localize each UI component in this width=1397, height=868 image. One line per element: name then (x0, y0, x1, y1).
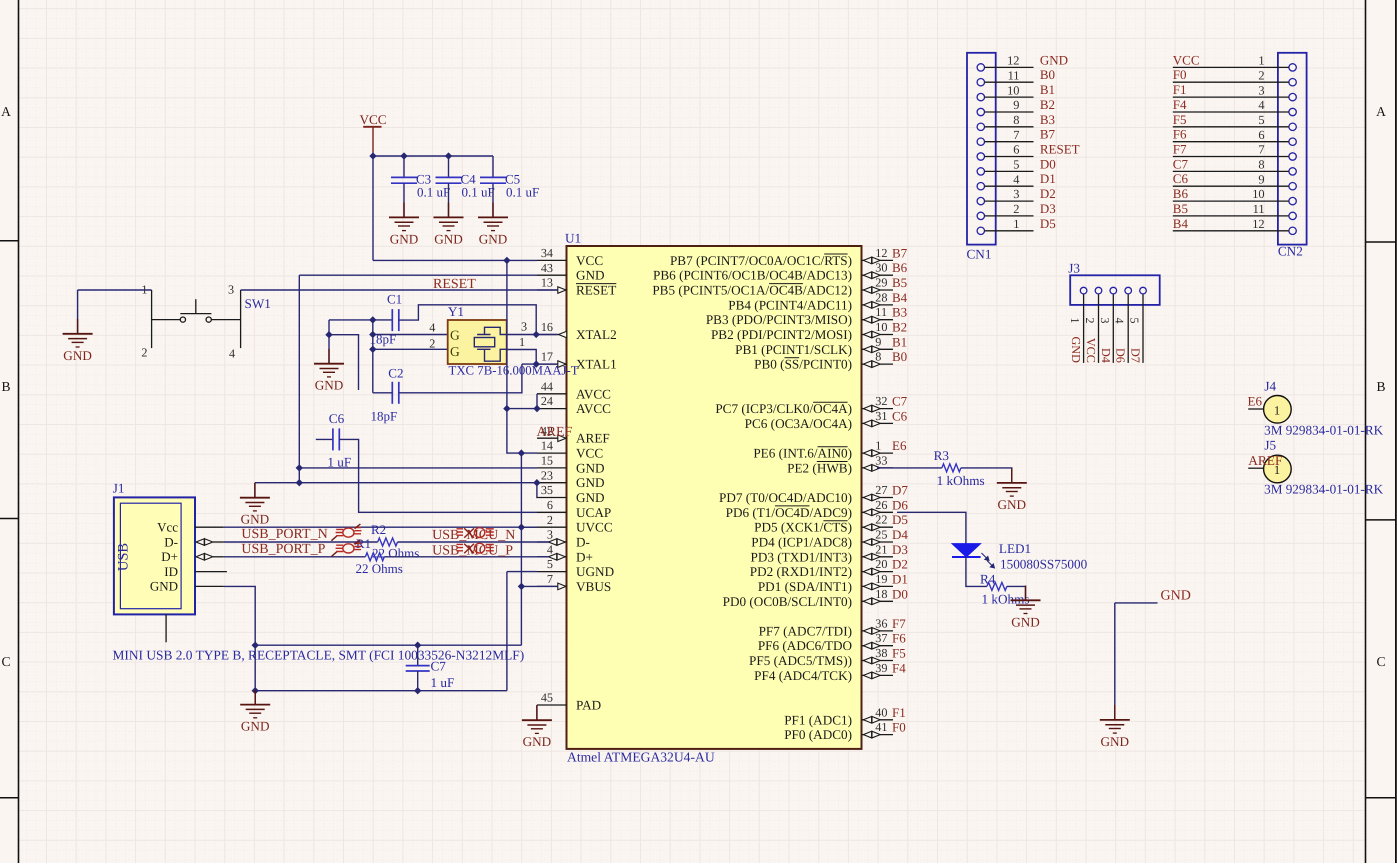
CN2 pin 3 F1 (1289, 93, 1296, 100)
ic U1 ATMEGA32U4 body (567, 246, 862, 749)
ground symbol right (1114, 705, 1116, 720)
svg-text:MINI USB 2.0 TYPE B, RECEPTACL: MINI USB 2.0 TYPE B, RECEPTACLE, SMT (FC… (113, 648, 525, 663)
svg-text:11: 11 (1253, 202, 1265, 216)
svg-text:1: 1 (1013, 217, 1019, 231)
svg-text:B5: B5 (892, 275, 907, 290)
svg-text:C6: C6 (892, 408, 908, 423)
svg-text:GND: GND (998, 497, 1027, 512)
svg-text:2: 2 (1013, 202, 1019, 216)
svg-text:2: 2 (1258, 69, 1264, 83)
U1 right pin 30 PB6 (PCINT6/OC1B/OC4B/ADC13) (862, 274, 894, 276)
svg-text:D4: D4 (892, 527, 908, 542)
CN2 pin 1 VCC (1289, 64, 1296, 71)
svg-text:12: 12 (875, 246, 887, 260)
U1 right pin 20 PD2 (RXD1/INT2) (862, 571, 894, 573)
svg-text:UCAP: UCAP (576, 505, 611, 520)
CN1 pin 11 B0 (977, 79, 984, 86)
CN1 pin 5 D0 (977, 168, 984, 175)
U1 right pin 39 PF4 (ADC4/TCK) (862, 674, 894, 676)
svg-text:SW1: SW1 (245, 296, 271, 311)
wire USB_PORT_N to R2 (224, 541, 378, 543)
ground symbol below J1 (254, 690, 256, 705)
svg-text:5: 5 (1258, 113, 1264, 127)
svg-text:3: 3 (228, 283, 234, 297)
svg-text:J5: J5 (1264, 438, 1276, 453)
svg-text:2: 2 (547, 513, 553, 527)
CN1 pin 10 B1 (977, 93, 984, 100)
wire Y1 pin2 (373, 348, 448, 350)
svg-text:1 uF: 1 uF (431, 675, 455, 690)
wire VCC top bus (373, 155, 493, 157)
svg-text:8: 8 (1258, 158, 1264, 172)
svg-text:A: A (1, 104, 11, 119)
svg-text:4: 4 (1113, 318, 1127, 324)
U1 left pin 3 D- (537, 541, 567, 543)
svg-text:2: 2 (1083, 318, 1097, 324)
wire R1 to U1 D+ (384, 556, 549, 558)
svg-text:24: 24 (541, 394, 553, 408)
wire gnd net right (1115, 603, 1158, 720)
svg-text:AVCC: AVCC (576, 401, 611, 416)
red error scribble on USB_MCU_P (457, 543, 494, 553)
svg-text:CN2: CN2 (1278, 244, 1303, 259)
CN1 pin 8 B3 (977, 123, 984, 130)
U1 right pin 25 PD4 (ICP1/ADC8) (862, 541, 894, 543)
svg-text:0.1 uF: 0.1 uF (462, 185, 495, 200)
svg-text:31: 31 (875, 409, 887, 423)
U1 right pin 9 PB1 (PCINT1/SCLK) (862, 348, 894, 350)
svg-text:17: 17 (541, 350, 553, 364)
svg-text:PD5 (XCK1/CTS): PD5 (XCK1/CTS) (754, 520, 852, 535)
U1 right pin 28 PB4 (PCINT4/ADC11) (862, 304, 894, 306)
svg-text:PB5 (PCINT5/OC1A/OC4B/ADC12): PB5 (PCINT5/OC1A/OC4B/ADC12) (652, 283, 852, 298)
CN1 pin 2 D3 (977, 212, 984, 219)
svg-text:D3: D3 (892, 542, 908, 557)
svg-text:D0: D0 (1040, 156, 1056, 171)
U1 right pin 32 PC7 (ICP3/CLK0/OC4A) (862, 408, 894, 410)
svg-text:GND: GND (1040, 52, 1068, 67)
led LED1 (952, 544, 981, 557)
wire lower gnd bus (255, 690, 507, 692)
CN2 pin 4 F4 (1289, 108, 1296, 115)
svg-text:PC7 (ICP3/CLK0/OC4A): PC7 (ICP3/CLK0/OC4A) (715, 401, 852, 416)
svg-text:PD7 (T0/OC4D/ADC10): PD7 (T0/OC4D/ADC10) (719, 490, 852, 505)
wire R2 to U1 D- (398, 541, 550, 543)
svg-text:F4: F4 (892, 660, 906, 675)
svg-text:B6: B6 (1173, 186, 1189, 201)
svg-text:B1: B1 (1040, 82, 1055, 97)
svg-text:0.1 uF: 0.1 uF (417, 185, 450, 200)
svg-text:GND: GND (241, 719, 270, 734)
svg-text:GND: GND (63, 348, 92, 363)
U1 right pin 26 PD6 (T1/OC4D/ADC9) (862, 511, 894, 513)
svg-text:40: 40 (875, 705, 887, 719)
svg-text:C6: C6 (329, 411, 345, 426)
svg-text:44: 44 (541, 379, 553, 393)
wire C5 top lead (492, 156, 494, 177)
svg-text:1 kOhms: 1 kOhms (937, 473, 985, 488)
wire Y1 pin4 (373, 334, 448, 336)
svg-text:VCC: VCC (576, 253, 603, 268)
U1 left pin 44 AVCC (537, 393, 567, 395)
U1 left pin 14 VCC (537, 452, 567, 454)
wire pin35 GND link (536, 483, 538, 498)
svg-text:F0: F0 (892, 720, 906, 735)
capacitor C2 18pF (392, 382, 399, 404)
wire C3 top lead (403, 156, 405, 177)
svg-text:18pF: 18pF (371, 409, 398, 424)
wire gnd corner to C1 (329, 319, 392, 321)
svg-text:GND: GND (315, 378, 344, 393)
svg-text:29: 29 (875, 276, 887, 290)
wire J1 Vcc to UVCC pin2 (224, 526, 537, 528)
svg-text:PF6 (ADC6/TDO: PF6 (ADC6/TDO (758, 638, 852, 653)
svg-text:C6: C6 (1173, 171, 1189, 186)
svg-text:1: 1 (1068, 318, 1082, 324)
connector J3 body (1070, 275, 1160, 305)
U1 left pin 35 GND (537, 497, 567, 499)
U1 left pin 34 VCC (537, 259, 567, 261)
wire C7 top lead (417, 645, 419, 665)
U1 right pin 27 PD7 (T0/OC4D/ADC10) (862, 497, 894, 499)
CN2 pin 12 B4 (1289, 227, 1296, 234)
connector J5 (1248, 467, 1263, 469)
svg-text:B2: B2 (1040, 97, 1055, 112)
svg-text:21: 21 (875, 542, 887, 556)
svg-text:D5: D5 (1040, 216, 1056, 231)
U1 right pin 11 PB3 (PDO/PCINT3/MISO) (862, 319, 894, 321)
U1 right pin 12 PB7 (PCINT7/OC0A/OC1C/RTS) (862, 259, 894, 261)
svg-text:UVCC: UVCC (576, 520, 613, 535)
wire C6 left stub (316, 438, 333, 440)
svg-text:PB1 (PCINT1/SCLK): PB1 (PCINT1/SCLK) (735, 342, 852, 357)
ground symbol under C5 (492, 203, 494, 218)
svg-text:30: 30 (875, 261, 887, 275)
svg-text:28: 28 (875, 290, 887, 304)
wire GND to SW1 pin1 (78, 290, 152, 334)
ground symbol crystal (328, 349, 330, 364)
U1 right pin 8 PB0 (SS/PCINT0) (862, 363, 894, 365)
svg-text:VCC: VCC (1173, 52, 1200, 67)
CN2 pin 6 F6 (1289, 138, 1296, 145)
svg-text:GND: GND (1101, 734, 1130, 749)
svg-text:10: 10 (875, 320, 887, 334)
svg-text:18: 18 (875, 587, 887, 601)
svg-text:15: 15 (541, 454, 553, 468)
red error scribble on USB_MCU_N (457, 528, 494, 538)
wire C6 to UCAP pin6 (339, 439, 537, 512)
svg-text:3M 929834-01-01-RK: 3M 929834-01-01-RK (1264, 423, 1384, 438)
svg-text:PB4 (PCINT4/ADC11): PB4 (PCINT4/ADC11) (728, 297, 852, 312)
svg-text:VCC: VCC (576, 446, 603, 461)
svg-text:F6: F6 (1173, 127, 1187, 142)
resistor R1 22 Ohms (365, 553, 384, 561)
svg-text:D3: D3 (1040, 201, 1056, 216)
svg-text:37: 37 (875, 631, 887, 645)
svg-text:RESET: RESET (433, 277, 476, 292)
wire AVCC24 row (507, 408, 537, 410)
svg-text:AREF: AREF (576, 431, 610, 446)
svg-text:AREF: AREF (537, 425, 573, 440)
wire XTAL2 row (507, 334, 558, 336)
CN1 pin 12 GND (977, 64, 984, 71)
svg-text:PF4 (ADC4/TCK): PF4 (ADC4/TCK) (754, 668, 852, 683)
connector CN2 body (1278, 53, 1307, 245)
wire XTAL1 row (522, 363, 558, 365)
svg-text:1: 1 (1274, 404, 1280, 418)
zone divider ticks right margin (1366, 242, 1397, 798)
svg-text:B7: B7 (892, 245, 908, 260)
U1 left pin 13 RESET (537, 289, 567, 291)
svg-text:ID: ID (164, 564, 178, 579)
svg-text:PD4 (ICP1/ADC8): PD4 (ICP1/ADC8) (751, 535, 852, 550)
wire C2 right to XTAL1 (399, 364, 522, 393)
svg-text:VBUS: VBUS (576, 579, 611, 594)
svg-text:F1: F1 (892, 705, 906, 720)
svg-text:11: 11 (1008, 69, 1020, 83)
svg-text:B7: B7 (1040, 127, 1056, 142)
wire AVCC44 link (536, 394, 538, 409)
svg-text:C2: C2 (388, 365, 403, 380)
svg-text:D+: D+ (161, 549, 178, 564)
svg-text:U1: U1 (565, 231, 581, 246)
wire UGND vertical (506, 572, 508, 691)
svg-text:D1: D1 (1040, 171, 1056, 186)
svg-text:PE2 (HWB): PE2 (HWB) (787, 460, 852, 475)
svg-text:33: 33 (875, 453, 887, 467)
power port VCC (363, 126, 381, 128)
svg-text:2: 2 (429, 336, 435, 350)
CN2 pin 8 C7 (1289, 168, 1296, 175)
svg-text:23: 23 (541, 468, 553, 482)
svg-text:PE6 (INT.6/AIN0): PE6 (INT.6/AIN0) (753, 446, 852, 461)
U1 right pin 40 PF1 (ADC1) (862, 719, 894, 721)
resistor R2 22 Ohms (378, 538, 398, 546)
wire upper gnd bus (255, 644, 521, 646)
wire vertical x=521 VCC/VBUS bus (520, 453, 522, 645)
svg-text:D7: D7 (892, 483, 908, 498)
svg-text:B: B (1376, 379, 1385, 394)
svg-text:GND: GND (150, 579, 178, 594)
U1 right pin 33 PE2 (HWB) (862, 467, 894, 469)
CN2 pin 2 F0 (1289, 79, 1296, 86)
U1 left pin 7 VBUS (537, 585, 567, 587)
CN2 pin 10 B6 (1289, 197, 1296, 204)
svg-text:F5: F5 (892, 646, 906, 661)
svg-text:B0: B0 (1040, 67, 1055, 82)
svg-text:VCC: VCC (359, 112, 386, 127)
CN1 pin 3 D2 (977, 197, 984, 204)
svg-text:20: 20 (875, 557, 887, 571)
svg-text:F6: F6 (892, 631, 906, 646)
svg-text:7: 7 (1258, 143, 1264, 157)
svg-text:14: 14 (541, 439, 553, 453)
ground symbol under pin23 wire (254, 483, 256, 498)
svg-text:GND: GND (241, 512, 270, 527)
svg-text:A: A (1376, 104, 1386, 119)
wire vertical gnd bus x=299 (298, 275, 300, 483)
wire pin23 GND row (255, 482, 537, 484)
wire gnd drop left (328, 320, 330, 335)
svg-text:VCC: VCC (1084, 338, 1098, 363)
capacitor C4 0.1 uF (436, 177, 462, 183)
U1 left pin 2 UVCC (537, 526, 567, 528)
svg-text:D0: D0 (892, 586, 908, 601)
U1 left pin 4 D+ (537, 556, 567, 558)
svg-text:B0: B0 (892, 349, 907, 364)
connector J4 (1248, 408, 1263, 410)
connector CN1 body (967, 53, 996, 245)
J1 pin stubs (166, 527, 227, 642)
svg-text:PD3 (TXD1/INT3): PD3 (TXD1/INT3) (751, 549, 852, 564)
U1 right pin 22 PD5 (XCK1/CTS) (862, 526, 894, 528)
svg-text:R3: R3 (934, 448, 950, 463)
svg-text:C7: C7 (431, 659, 447, 674)
svg-text:GND: GND (576, 460, 605, 475)
svg-text:G: G (450, 344, 460, 359)
svg-text:PC6 (OC3A/OC4A): PC6 (OC3A/OC4A) (745, 416, 852, 431)
wire C1 right to XTAL2 (399, 305, 536, 335)
J3 pin 4 D6 (1125, 287, 1132, 294)
svg-text:1: 1 (519, 335, 525, 349)
svg-text:PB3 (PDO/PCINT3/MISO): PB3 (PDO/PCINT3/MISO) (706, 312, 852, 327)
svg-text:1: 1 (875, 439, 881, 453)
sheet border right edge line (1395, 0, 1397, 863)
CN2 pin 7 F7 (1289, 153, 1296, 160)
ground symbol at R4 (1025, 586, 1027, 601)
svg-text:C: C (1, 654, 10, 669)
svg-text:7: 7 (547, 572, 553, 586)
U1 left pin 5 UGND (537, 571, 567, 573)
svg-text:45: 45 (541, 691, 553, 705)
CN1 pin 9 B2 (977, 108, 984, 115)
svg-text:USB_PORT_P: USB_PORT_P (241, 542, 325, 557)
U1 right pin 1 PE6 (INT.6/AIN0) (862, 452, 894, 454)
wire pin34 VCC row (373, 259, 537, 261)
U1 left pin 43 GND (537, 274, 567, 276)
svg-text:E6: E6 (1248, 393, 1263, 408)
U1 left pin 17 XTAL1 (537, 363, 567, 365)
svg-text:D7: D7 (1129, 348, 1143, 363)
capacitor C1 18pF (392, 309, 399, 331)
U1 left pin 6 UCAP (537, 511, 567, 513)
wire C5 bottom lead (492, 183, 494, 217)
svg-text:1 uF: 1 uF (327, 455, 351, 470)
svg-text:D+: D+ (576, 549, 593, 564)
U1 right pin 36 PF7 (ADC7/TDI) (862, 630, 894, 632)
crystal Y1 symbol (474, 327, 506, 361)
J3 pin 1 GND (1080, 287, 1087, 294)
svg-text:PF0 (ADC0): PF0 (ADC0) (784, 727, 852, 742)
svg-text:8: 8 (1013, 113, 1019, 127)
switch SW1 (152, 290, 241, 348)
svg-text:D-: D- (576, 535, 590, 550)
J3 pin 2 VCC (1095, 287, 1102, 294)
U1 left pin 15 GND (537, 467, 567, 469)
svg-text:G: G (450, 327, 460, 342)
svg-text:D-: D- (164, 534, 178, 549)
svg-text:11: 11 (875, 305, 887, 319)
svg-text:PD6 (T1/OC4D/ADC9): PD6 (T1/OC4D/ADC9) (726, 505, 852, 520)
wire pin15 GND row (299, 467, 537, 469)
svg-text:XTAL1: XTAL1 (576, 357, 617, 372)
wire VCC drop to pin 34 (372, 156, 374, 260)
svg-text:D5: D5 (892, 512, 908, 527)
svg-text:GND: GND (1069, 336, 1083, 363)
svg-text:PF7 (ADC7/TDI): PF7 (ADC7/TDI) (759, 623, 852, 638)
svg-text:PD2 (RXD1/INT2): PD2 (RXD1/INT2) (750, 564, 852, 579)
svg-text:Atmel ATMEGA32U4-AU: Atmel ATMEGA32U4-AU (567, 750, 715, 765)
svg-text:32: 32 (875, 394, 887, 408)
U1 left pin 45 PAD (537, 704, 567, 706)
wire LED to R4 (966, 557, 987, 586)
svg-text:4: 4 (1258, 98, 1264, 112)
svg-text:PB0 (SS/PCINT0): PB0 (SS/PCINT0) (754, 357, 852, 372)
svg-text:GND: GND (523, 734, 552, 749)
svg-text:13: 13 (541, 276, 553, 290)
svg-text:9: 9 (1013, 98, 1019, 112)
wire R3 to gnd (961, 468, 1012, 483)
wire UGND pin5 (507, 571, 537, 573)
svg-text:USB: USB (116, 543, 132, 571)
svg-text:GND: GND (434, 231, 463, 246)
wire C3 bottom lead (403, 183, 405, 217)
U1 right pin 38 PF5 (ADC5/TMS)) (862, 660, 894, 662)
svg-text:GND: GND (1161, 589, 1191, 604)
svg-text:3: 3 (1258, 83, 1264, 97)
svg-text:B6: B6 (892, 260, 908, 275)
svg-text:5: 5 (1128, 318, 1142, 324)
CN2 pin 5 F5 (1289, 123, 1296, 130)
svg-text:D2: D2 (1040, 186, 1056, 201)
svg-text:AVCC: AVCC (576, 386, 611, 401)
wire gnd stem (254, 645, 256, 704)
svg-text:34: 34 (541, 246, 553, 260)
CN2 pin 9 C6 (1289, 183, 1296, 190)
svg-text:PF1 (ADC1): PF1 (ADC1) (784, 712, 852, 727)
svg-text:0.1 uF: 0.1 uF (506, 185, 539, 200)
svg-text:22: 22 (875, 513, 887, 527)
svg-text:4: 4 (229, 347, 235, 361)
svg-text:USB_PORT_N: USB_PORT_N (241, 527, 327, 542)
ground symbol left of SW1 (77, 319, 79, 334)
svg-text:C7: C7 (1173, 156, 1189, 171)
svg-text:B3: B3 (892, 305, 907, 320)
svg-text:1: 1 (141, 283, 147, 297)
U1 left pin 16 XTAL2 (537, 334, 567, 336)
svg-text:B4: B4 (892, 290, 908, 305)
svg-text:25: 25 (875, 528, 887, 542)
svg-text:GND: GND (390, 231, 419, 246)
svg-text:10: 10 (1252, 187, 1264, 201)
svg-text:2: 2 (141, 346, 147, 360)
svg-text:D2: D2 (892, 557, 908, 572)
svg-text:F1: F1 (1173, 82, 1187, 97)
svg-text:F7: F7 (1173, 142, 1187, 157)
svg-text:B3: B3 (1040, 112, 1055, 127)
svg-text:F4: F4 (1173, 97, 1187, 112)
diff pair marker on USB_PORT_P (331, 540, 361, 557)
J3 pin 3 D4 (1110, 287, 1117, 294)
svg-text:19: 19 (875, 572, 887, 586)
capacitor C3 0.1 uF (391, 177, 417, 183)
diff pair marker on USB_PORT_N (331, 524, 361, 541)
svg-text:3: 3 (1013, 187, 1019, 201)
U1 right pin 41 PF0 (ADC0) (862, 734, 894, 736)
svg-text:TXC 7B-16.000MAAJ-T: TXC 7B-16.000MAAJ-T (449, 363, 579, 377)
resistor R3 1 kOhms (942, 464, 961, 472)
CN1 pin 1 D5 (977, 227, 984, 234)
